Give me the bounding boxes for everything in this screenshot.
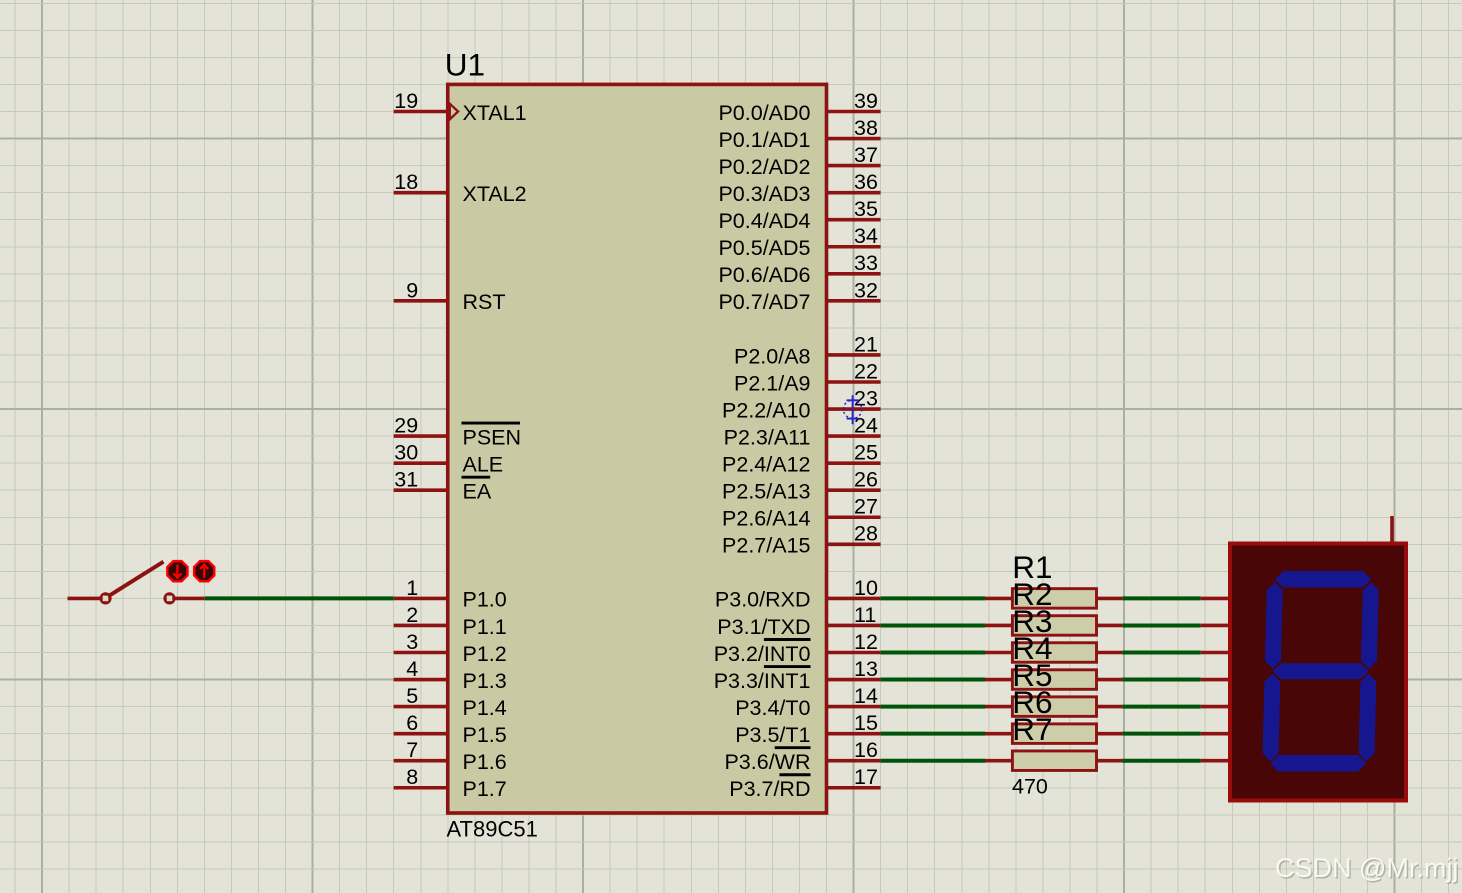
- display pin stub 7: [1201, 759, 1230, 763]
- U1 pin 38 P0.1/AD1 (right): [718, 116, 880, 152]
- svg-text:17: 17: [854, 765, 878, 789]
- svg-text:AT89C51: AT89C51: [447, 817, 538, 842]
- U1 pin 32 P0.7/AD7 (right): [718, 278, 880, 314]
- svg-text:R7: R7: [1012, 711, 1052, 747]
- U1 pin 6 P1.5 (left): [394, 711, 507, 747]
- svg-text:P1.1: P1.1: [463, 615, 507, 639]
- U1 pin 39 P0.0/AD0 (right): [718, 89, 880, 125]
- U1 pin 2 P1.1 (left): [394, 603, 507, 639]
- svg-text:P2.0/A8: P2.0/A8: [734, 344, 811, 368]
- svg-text:2: 2: [406, 603, 418, 627]
- svg-text:21: 21: [854, 332, 878, 356]
- wire resistor R2 to display pin 2: [1122, 623, 1201, 627]
- svg-text:6: 6: [406, 711, 418, 735]
- svg-text:EA: EA: [463, 480, 492, 504]
- svg-text:P2.2/A10: P2.2/A10: [722, 398, 810, 422]
- svg-text:3: 3: [406, 630, 418, 654]
- U1 pin 19 XTAL1 (left): [394, 89, 527, 125]
- svg-text:8: 8: [406, 765, 418, 789]
- display pin stub 4: [1201, 678, 1230, 682]
- display pin stub 2: [1201, 624, 1230, 628]
- wire resistor R3 to display pin 3: [1122, 651, 1201, 655]
- clock input marker on XTAL1: [450, 104, 458, 120]
- U1 pin 31 EA (left): [394, 468, 492, 504]
- resistor R4: [985, 670, 1122, 690]
- wire resistor R6 to display pin 6: [1122, 732, 1201, 736]
- svg-text:14: 14: [854, 684, 878, 708]
- svg-text:P2.1/A9: P2.1/A9: [734, 371, 811, 395]
- switch SW1 left terminal: [99, 592, 111, 604]
- svg-text:P1.3: P1.3: [463, 669, 507, 693]
- display segment c: [1358, 674, 1376, 762]
- switch actuator button (up arrow): [194, 561, 214, 581]
- wire U1 P3.4 to resistor R5: [881, 705, 985, 709]
- svg-text:P3.7/RD: P3.7/RD: [729, 777, 810, 801]
- svg-text:P3.1/TXD: P3.1/TXD: [717, 615, 810, 639]
- svg-text:31: 31: [394, 468, 418, 492]
- svg-text:P0.5/AD5: P0.5/AD5: [718, 236, 810, 260]
- part value AT89C51: [447, 817, 538, 842]
- svg-text:RST: RST: [463, 290, 506, 314]
- resistor value 470: [1012, 775, 1048, 799]
- U1 pin 25 P2.4/A12 (right): [722, 441, 881, 477]
- U1 pin 21 P2.0/A8 (right): [734, 332, 881, 368]
- svg-text:27: 27: [854, 495, 878, 519]
- svg-text:XTAL2: XTAL2: [463, 182, 527, 206]
- wire resistor R7 to display pin 7: [1122, 759, 1201, 763]
- watermark CSDN @Mr.mjj: [1275, 853, 1460, 885]
- reference designator U1: [445, 47, 485, 83]
- wire resistor R1 to display pin 1: [1122, 596, 1201, 600]
- reference designator R5: [1012, 657, 1052, 693]
- reference designator R3: [1012, 603, 1052, 639]
- svg-text:10: 10: [854, 576, 878, 600]
- U1 pin 15 P3.5/T1 (right): [735, 711, 880, 747]
- svg-text:P0.6/AD6: P0.6/AD6: [718, 263, 810, 287]
- U1 pin 10 P3.0/RXD (right): [715, 576, 881, 612]
- IC U1 AT89C51 body: [448, 84, 827, 813]
- resistor R3: [985, 643, 1122, 663]
- display common pin (top): [1390, 516, 1394, 544]
- switch SW1 blade (open): [108, 562, 164, 597]
- U1 pin 9 RST (left): [394, 278, 506, 314]
- resistor R5: [985, 697, 1122, 717]
- wire U1 P3.5 to resistor R6: [881, 732, 985, 736]
- reference designator R1: [1012, 549, 1052, 585]
- resistor R1: [985, 589, 1122, 609]
- svg-text:470: 470: [1012, 775, 1048, 799]
- resistor R6: [985, 724, 1122, 744]
- svg-text:25: 25: [854, 441, 878, 465]
- U1 pin 4 P1.3 (left): [394, 657, 507, 693]
- wire resistor R5 to display pin 5: [1122, 705, 1201, 709]
- svg-text:PSEN: PSEN: [463, 425, 522, 449]
- svg-text:26: 26: [854, 468, 878, 492]
- display digit (all segments lit): [1262, 571, 1379, 772]
- svg-text:U1: U1: [445, 47, 485, 83]
- U1 pin 22 P2.1/A9 (right): [734, 359, 881, 395]
- origin marker cursor at pin 23: [843, 395, 861, 424]
- svg-text:12: 12: [854, 630, 878, 654]
- wire switch to U1 P1.0: [205, 596, 394, 600]
- wire U1 P3.6 to resistor R7: [881, 759, 985, 763]
- U1 pin 11 P3.1/TXD (right): [717, 603, 880, 639]
- U1 pin 33 P0.6/AD6 (right): [718, 251, 880, 287]
- reference designator R7: [1012, 711, 1052, 747]
- switch SW1 left lead: [68, 597, 104, 601]
- svg-text:P1.0: P1.0: [463, 588, 507, 612]
- U1 pin 14 P3.4/T0 (right): [735, 684, 880, 720]
- svg-text:P3.4/T0: P3.4/T0: [735, 696, 810, 720]
- reference designator R6: [1012, 684, 1052, 720]
- svg-text:CSDN @Mr.mjj: CSDN @Mr.mjj: [1275, 853, 1458, 883]
- display pin stub 6: [1201, 732, 1230, 736]
- reference designator R2: [1012, 576, 1052, 612]
- U1 pin 16 P3.6/WR (right): [724, 738, 880, 774]
- U1 pin 26 P2.5/A13 (right): [722, 468, 881, 504]
- svg-text:24: 24: [854, 414, 878, 438]
- U1 pin 29 PSEN (left): [394, 414, 521, 450]
- svg-text:33: 33: [854, 251, 878, 275]
- svg-text:30: 30: [394, 441, 418, 465]
- svg-text:P3.0/RXD: P3.0/RXD: [715, 588, 811, 612]
- svg-text:P0.3/AD3: P0.3/AD3: [718, 182, 810, 206]
- U1 pin 27 P2.6/A14 (right): [722, 495, 881, 531]
- U1 pin 8 P1.7 (left): [394, 765, 507, 801]
- svg-text:13: 13: [854, 657, 878, 681]
- svg-text:P0.4/AD4: P0.4/AD4: [718, 209, 810, 233]
- U1 pin 30 ALE (left): [394, 441, 503, 477]
- svg-text:P2.3/A11: P2.3/A11: [724, 425, 811, 449]
- reference designator R4: [1012, 630, 1052, 666]
- svg-text:P0.0/AD0: P0.0/AD0: [718, 101, 810, 125]
- U1 pin 12 P3.2/INT0 (right): [714, 630, 881, 666]
- svg-text:22: 22: [854, 359, 878, 383]
- U1 pin 17 P3.7/RD (right): [729, 765, 880, 801]
- svg-text:34: 34: [854, 224, 878, 248]
- resistor R7: [985, 751, 1122, 771]
- svg-text:38: 38: [854, 116, 878, 140]
- display segment b: [1361, 582, 1379, 669]
- switch actuator button (down arrow): [167, 561, 187, 581]
- svg-text:P2.7/A15: P2.7/A15: [722, 534, 810, 558]
- svg-text:P3.2/INT0: P3.2/INT0: [714, 642, 811, 666]
- switch SW1 right terminal: [163, 592, 175, 604]
- U1 pin 7 P1.6 (left): [394, 738, 507, 774]
- resistor R2: [985, 616, 1122, 636]
- U1 pin 36 P0.3/AD3 (right): [718, 170, 880, 206]
- U1 pin 23 P2.2/A10 (right): [722, 386, 881, 422]
- svg-text:1: 1: [406, 576, 418, 600]
- svg-text:23: 23: [854, 386, 878, 410]
- svg-text:P3.5/T1: P3.5/T1: [735, 723, 810, 747]
- 7-segment display body: [1230, 544, 1406, 801]
- svg-text:P2.5/A13: P2.5/A13: [722, 480, 810, 504]
- wire U1 P3.0 to resistor R1: [881, 596, 985, 600]
- U1 pin 5 P1.4 (left): [394, 684, 507, 720]
- svg-text:P1.4: P1.4: [463, 696, 507, 720]
- svg-text:29: 29: [394, 414, 418, 438]
- svg-text:15: 15: [854, 711, 878, 735]
- display segment a: [1275, 571, 1371, 588]
- svg-text:5: 5: [406, 684, 418, 708]
- svg-text:36: 36: [854, 170, 878, 194]
- svg-text:P0.7/AD7: P0.7/AD7: [718, 290, 810, 314]
- display segment d: [1270, 755, 1366, 772]
- svg-text:16: 16: [854, 738, 878, 762]
- display pin stub 3: [1201, 651, 1230, 655]
- svg-text:32: 32: [854, 278, 878, 302]
- svg-text:P3.6/WR: P3.6/WR: [724, 750, 810, 774]
- svg-text:P1.5: P1.5: [463, 723, 507, 747]
- svg-text:35: 35: [854, 197, 878, 221]
- svg-text:P0.2/AD2: P0.2/AD2: [718, 155, 810, 179]
- U1 pin 34 P0.5/AD5 (right): [718, 224, 880, 260]
- U1 pin 24 P2.3/A11 (right): [724, 414, 881, 450]
- U1 pin 1 P1.0 (left): [394, 576, 507, 612]
- svg-text:ALE: ALE: [463, 452, 504, 476]
- svg-text:39: 39: [854, 89, 878, 113]
- svg-text:9: 9: [406, 278, 418, 302]
- wire U1 P3.2 to resistor R3: [881, 651, 985, 655]
- svg-text:P2.6/A14: P2.6/A14: [722, 507, 810, 531]
- wire U1 P3.3 to resistor R4: [881, 678, 985, 682]
- U1 pin 37 P0.2/AD2 (right): [718, 143, 880, 179]
- display segment g: [1272, 663, 1368, 679]
- display segment f: [1265, 582, 1283, 669]
- svg-text:P1.7: P1.7: [463, 777, 507, 801]
- display pin stub 5: [1201, 705, 1230, 709]
- svg-text:XTAL1: XTAL1: [463, 101, 527, 125]
- svg-text:7: 7: [406, 738, 418, 762]
- svg-text:4: 4: [406, 657, 418, 681]
- display segment e: [1262, 674, 1280, 762]
- wire U1 P3.1 to resistor R2: [881, 623, 985, 627]
- U1 pin 28 P2.7/A15 (right): [722, 522, 881, 558]
- svg-text:P1.2: P1.2: [463, 642, 507, 666]
- svg-text:P1.6: P1.6: [463, 750, 507, 774]
- svg-text:P2.4/A12: P2.4/A12: [722, 452, 810, 476]
- display pin stub 1: [1201, 597, 1230, 601]
- switch SW1 right lead: [175, 597, 205, 601]
- U1 pin 13 P3.3/INT1 (right): [714, 657, 881, 693]
- wire resistor R4 to display pin 4: [1122, 678, 1201, 682]
- svg-text:18: 18: [394, 170, 418, 194]
- svg-text:19: 19: [394, 89, 418, 113]
- svg-text:28: 28: [854, 522, 878, 546]
- U1 pin 3 P1.2 (left): [394, 630, 507, 666]
- U1 pin 18 XTAL2 (left): [394, 170, 527, 206]
- svg-text:11: 11: [854, 603, 876, 627]
- svg-text:P0.1/AD1: P0.1/AD1: [718, 128, 810, 152]
- svg-text:P3.3/INT1: P3.3/INT1: [714, 669, 811, 693]
- U1 pin 35 P0.4/AD4 (right): [718, 197, 880, 233]
- svg-text:37: 37: [854, 143, 878, 167]
